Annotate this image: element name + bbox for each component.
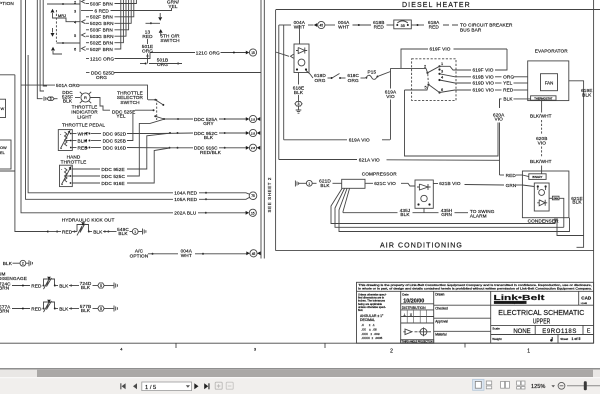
throttle indicator ground cap: [41, 97, 46, 101]
svg-text:BLK: BLK: [81, 285, 91, 290]
svg-text:619C VIO: 619C VIO: [473, 88, 495, 93]
svg-text:619F VIO: 619F VIO: [430, 47, 451, 52]
svg-text:.XX ± .06: .XX ± .06: [361, 327, 377, 331]
sheet bottom border: [0, 342, 594, 344]
svg-text:NONE: NONE: [513, 329, 530, 335]
wire to hydraulic kick out: [15, 75, 47, 232]
svg-text:BINARY: BINARY: [532, 175, 542, 179]
connector J1 body: [79, 0, 81, 52]
wire 503F BRN row5: [86, 29, 89, 31]
svg-text:1 / 5: 1 / 5: [145, 385, 156, 391]
ground connector circle 5 B: [98, 306, 104, 311]
hexagon connector 3: [47, 97, 54, 100]
svg-text:WHT: WHT: [181, 253, 192, 258]
svg-text:3: 3: [50, 97, 52, 101]
wire 619A VIO horizontal: [284, 139, 347, 141]
svg-text:RED: RED: [142, 34, 153, 39]
svg-text:Drawn: Drawn: [435, 293, 444, 297]
sheet right border: [593, 0, 595, 343]
svg-text:THERMOSTAT: THERMOSTAT: [534, 96, 552, 100]
svg-text:BLK: BLK: [63, 99, 73, 104]
hand throttle wire DDC 525C: [72, 175, 100, 177]
wire 619B VIO row: [440, 74, 472, 77]
binary wires into condenser: [522, 175, 528, 177]
svg-text:Material: Material: [435, 333, 447, 337]
svg-text:RED: RED: [31, 283, 42, 288]
continuous layout icon: [486, 381, 491, 389]
tolerance column divider: [400, 291, 402, 343]
svg-text:GRN: GRN: [441, 212, 452, 217]
wire 501E ORG: [147, 39, 149, 44]
svg-text:BLK: BLK: [118, 231, 128, 236]
svg-text:6: 6: [74, 46, 76, 51]
zone tick C: [464, 343, 466, 347]
condenser outer box: [522, 171, 569, 218]
wire 501A ORG: [21, 84, 55, 86]
wire 619A branch down: [283, 25, 285, 140]
single page layout icon (selected): [473, 379, 484, 390]
svg-text:FAN: FAN: [554, 197, 559, 200]
ground symbol kick out: [143, 229, 146, 235]
selector pin5 drop wire: [405, 90, 499, 156]
svg-text:2.8: 2.8: [251, 131, 256, 135]
throttle indicator light R: [81, 93, 90, 102]
svg-text:Link•Belt: Link•Belt: [494, 293, 546, 302]
svg-text:CONDENSER: CONDENSER: [528, 218, 560, 223]
svg-text:502F BRN: 502F BRN: [90, 47, 113, 52]
svg-text:202A BLU: 202A BLU: [174, 211, 197, 216]
svg-text:104A RED: 104A RED: [174, 191, 197, 196]
svg-text:DDC 916E: DDC 916E: [101, 181, 124, 186]
svg-text:503F BRN: 503F BRN: [90, 28, 113, 33]
wire riser G: [37, 0, 40, 99]
ac section left border: [275, 10, 277, 251]
svg-text:1: 1: [441, 61, 443, 66]
see sheet 2 band line B: [263, 0, 265, 259]
left connector box YEL: [0, 140, 11, 169]
condenser fan box: [552, 196, 559, 200]
svg-text:BRN: BRN: [0, 309, 9, 314]
svg-text:.X ± .1: .X ± .1: [361, 323, 375, 327]
wire riser I: [43, 0, 47, 86]
svg-text:Weight: Weight: [492, 337, 501, 341]
svg-text:SWITCH: SWITCH: [120, 100, 139, 105]
wire 104A RED riser: [28, 55, 173, 193]
wire 619A VIO vertical: [378, 72, 391, 77]
wire 619F VIO row: [440, 66, 472, 70]
svg-text:VIO: VIO: [386, 94, 395, 99]
svg-text:.XXX ± .003: .XXX ± .003: [361, 332, 380, 336]
drum disengage switch: [44, 279, 55, 286]
svg-text:6 RED: 6 RED: [95, 8, 110, 13]
throttle pedal potentiometer: [58, 130, 72, 151]
svg-text:GRN: GRN: [506, 183, 517, 188]
svg-text:BLK: BLK: [400, 212, 410, 217]
hexagon ground 3 heater: [295, 102, 302, 106]
svg-text:in whole or in part, of design: in whole or in part, of design and detai…: [358, 287, 592, 291]
wire 503G BRN row6: [86, 35, 89, 37]
circuit breaker 35: [394, 20, 412, 29]
distribution grid verticals: [407, 310, 427, 323]
svg-text:BUS BAR: BUS BAR: [460, 28, 482, 33]
svg-text:THROTTLE PEDAL: THROTTLE PEDAL: [62, 122, 105, 127]
third angle projection symbol: [403, 329, 412, 335]
arrow into sheet 15: [246, 51, 250, 55]
svg-text:CAD: CAD: [581, 295, 592, 300]
wire BLK thermostat row: [500, 99, 502, 108]
svg-text:AIR CONDITIONING: AIR CONDITIONING: [380, 242, 463, 249]
SECTION: left sheet verticals: [0, 0, 173, 232]
wire DDC 952C BLK row: [169, 132, 171, 134]
svg-text:EL: EL: [0, 150, 6, 155]
svg-text:RED: RED: [503, 88, 514, 93]
scrollbar track: [0, 370, 600, 378]
svg-text:619B VIO: 619B VIO: [473, 74, 495, 79]
title block border: [357, 282, 594, 343]
zone tick B: [324, 343, 326, 348]
svg-text:3: 3: [74, 8, 76, 13]
svg-text:RED: RED: [374, 25, 385, 30]
5th o/r switch contact arrows: [158, 17, 162, 21]
last page button: [204, 383, 209, 389]
svg-text:Checked: Checked: [435, 307, 448, 311]
hand throttle wire DDC 916E: [72, 182, 100, 184]
svg-text:1: 1: [308, 182, 310, 186]
svg-text:RED: RED: [506, 173, 517, 178]
heater relay K1: [299, 25, 301, 44]
next page button: [194, 383, 198, 389]
svg-text:2.8: 2.8: [251, 146, 256, 150]
tolerance note column: [358, 293, 386, 313]
svg-text:E: E: [587, 329, 591, 335]
svg-text:121C ORG: 121C ORG: [90, 56, 114, 61]
svg-text:This drawing is the property o: This drawing is the property of Link-Bel…: [358, 283, 592, 287]
svg-text:DECIMAL: DECIMAL: [360, 318, 375, 322]
viewer separator line: [0, 368, 600, 370]
evaporator box: [528, 61, 569, 101]
svg-text:SWITCH: SWITCH: [160, 38, 179, 43]
svg-text:4: 4: [120, 347, 123, 352]
svg-text:W: W: [1, 106, 5, 111]
svg-text:WHT: WHT: [338, 25, 349, 30]
zone tick A: [175, 343, 177, 348]
svg-text:ORG: ORG: [503, 74, 514, 79]
svg-text:DDC 916D: DDC 916D: [103, 145, 127, 150]
svg-text:BLK: BLK: [320, 183, 330, 188]
wire lamp to selector: [90, 98, 110, 111]
svg-text:DIESEL HEATER: DIESEL HEATER: [402, 2, 471, 9]
svg-text:BLK: BLK: [3, 261, 13, 266]
svg-text:1: 1: [134, 230, 136, 234]
approvals column divider: [433, 291, 435, 343]
left connector box W: [0, 99, 6, 117]
heater switch: [331, 77, 333, 79]
svg-text:ORG: ORG: [314, 78, 325, 83]
svg-text:621C VIO: 621C VIO: [374, 181, 396, 186]
MRJ arrow up A: [51, 9, 55, 13]
wire RED condenser: [500, 174, 505, 176]
svg-text:4: 4: [441, 75, 444, 80]
svg-text:YEL: YEL: [168, 4, 177, 9]
wire 121C ORG left: [86, 58, 89, 60]
wire 435J BLK: [423, 208, 425, 212]
prev page button: [133, 383, 137, 389]
ac relay K2: [415, 180, 433, 208]
svg-text:6: 6: [441, 87, 443, 92]
ground connector circle 2: [20, 260, 26, 266]
pedal wire WHT: [72, 133, 76, 135]
svg-text:VIO: VIO: [494, 117, 503, 122]
selector connector dashed box: [412, 59, 456, 101]
wire 004A down branch: [278, 25, 280, 160]
wire 502E BRN row7: [86, 42, 89, 44]
wire 004A WHT trunk: [279, 24, 291, 26]
wire 618E BLK: [298, 73, 300, 85]
svg-text:ELECTRICAL SCHEMATIC: ELECTRICAL SCHEMATIC: [498, 310, 584, 317]
pedal wire RED: [72, 147, 76, 149]
selector blades: [428, 66, 440, 73]
svg-text:503F BRN: 503F BRN: [90, 1, 113, 6]
svg-text:502G BRN: 502G BRN: [90, 21, 114, 26]
relay K1 coil input wire: [276, 52, 289, 56]
svg-text:1 of 5: 1 of 5: [572, 337, 581, 341]
ground connector circle 1: [132, 229, 138, 235]
svg-text:R: R: [84, 95, 87, 100]
condenser inner motor box: [534, 183, 549, 211]
svg-text:35: 35: [401, 24, 405, 28]
svg-text:LIGHT: LIGHT: [77, 115, 91, 120]
svg-text:Sheet: Sheet: [560, 337, 568, 341]
svg-text:FAN: FAN: [545, 80, 554, 85]
svg-text:YEL: YEL: [503, 81, 512, 86]
sheet connector circle 45 heater: [318, 21, 325, 28]
sheet connector circle 2.8 A: [249, 115, 256, 122]
svg-text:DDC 525C: DDC 525C: [101, 174, 125, 179]
ac section bottom border: [276, 250, 594, 252]
see sheet 2 band line A: [260, 0, 262, 259]
svg-text:BLK: BLK: [582, 92, 592, 97]
MRJ node dot B: [62, 42, 64, 44]
svg-text:121C ORG: 121C ORG: [196, 50, 220, 55]
svg-text:2: 2: [390, 349, 393, 355]
svg-text:2: 2: [424, 64, 426, 69]
svg-text:THROTTLE: THROTTLE: [61, 159, 87, 164]
svg-text:125%: 125%: [531, 384, 545, 390]
sheet connector circle 15 B: [249, 209, 256, 216]
wire DDC 916C RED/BLK row: [169, 147, 171, 149]
MRJ node dot A: [62, 3, 64, 5]
zoom out button: [558, 382, 565, 389]
MRJ arrow down B: [51, 33, 55, 37]
wire 502F BRN row3: [86, 16, 89, 18]
svg-text:RED/BLK: RED/BLK: [200, 150, 222, 155]
svg-text:502E BRN: 502E BRN: [90, 41, 113, 46]
svg-text:ORG: ORG: [96, 75, 107, 80]
svg-text:BLK: BLK: [294, 90, 304, 95]
svg-text:RED: RED: [31, 306, 42, 311]
MRJ arrow up C: [51, 47, 55, 51]
svg-text:5: 5: [74, 33, 76, 38]
svg-text:619A VIO: 619A VIO: [349, 138, 370, 143]
logo cell divider: [490, 291, 492, 343]
scrollbar thumb: [37, 370, 593, 377]
sheet connector circle 75: [249, 192, 257, 200]
svg-text:BLK/WHT: BLK/WHT: [530, 114, 552, 119]
svg-text:45: 45: [252, 252, 256, 256]
svg-text:621A VIO: 621A VIO: [359, 157, 380, 162]
5th o/r wires: [159, 13, 161, 17]
page number box: [142, 382, 192, 391]
compressor fanout wires: [331, 189, 555, 224]
third angle projection label: [401, 340, 434, 344]
svg-text:BLK: BLK: [503, 97, 513, 102]
svg-text:YEL: YEL: [116, 114, 125, 119]
wire 502G BRN row4: [86, 22, 89, 24]
wire 620A VIO: [499, 99, 501, 108]
svg-text:3: 3: [254, 347, 257, 352]
wire 105A RED riser: [26, 0, 174, 199]
svg-text:2: 2: [22, 262, 24, 266]
pedal wire BLK: [72, 140, 76, 142]
left cable box: [0, 75, 15, 171]
svg-text:15: 15: [251, 211, 255, 215]
wire 621A VIO: [279, 159, 357, 161]
ground connector circle 5 A: [98, 283, 104, 288]
hand throttle wire DDC 952E: [72, 168, 100, 170]
wire riser H: [40, 0, 44, 91]
svg-text:DDC 952D: DDC 952D: [103, 131, 127, 136]
svg-text:DISENGAGE: DISENGAGE: [0, 276, 27, 281]
svg-text:I-1045: I-1045: [581, 303, 588, 305]
svg-text:RED: RED: [62, 229, 73, 234]
wire 619D VIO row: [440, 80, 472, 83]
svg-text:5: 5: [100, 307, 102, 311]
wire 621C VIO: [365, 182, 373, 184]
compressor box: [342, 179, 365, 188]
svg-text:P15: P15: [368, 70, 377, 75]
svg-text:CONSTRUCTION EQUIPMENT: CONSTRUCTION EQUIPMENT: [495, 302, 525, 304]
compressor ground: [295, 181, 298, 187]
svg-text:PTION: PTION: [0, 1, 14, 6]
svg-text:ORG: ORG: [348, 78, 359, 83]
node dot 501E: [150, 22, 152, 24]
svg-text:UPPER: UPPER: [533, 318, 551, 325]
sheet connector circle 15: [249, 49, 256, 56]
svg-text:.XXXX ± .0005: .XXXX ± .0005: [361, 336, 383, 340]
hydraulic kick out switch: [47, 231, 49, 233]
svg-text:501A ORG: 501A ORG: [56, 83, 80, 88]
sheet connector circle 2.8 C: [249, 144, 256, 151]
svg-text:COMPRESSOR: COMPRESSOR: [362, 172, 398, 177]
wire 501B ORG: [140, 63, 145, 65]
svg-text:VIO: VIO: [538, 140, 547, 145]
wire 6 RED row2: [86, 10, 93, 12]
svg-text:MRJ: MRJ: [58, 13, 66, 18]
svg-text:OPTION: OPTION: [130, 253, 149, 258]
svg-text:BRN: BRN: [0, 286, 9, 291]
svg-text:ORG: ORG: [157, 62, 168, 67]
binary switch box: [529, 174, 546, 180]
wire 503F BRN row1: [86, 3, 89, 5]
two page layout icon: [501, 381, 510, 388]
wire 619E BLK: [569, 81, 584, 248]
wire 502F BRN row8: [86, 48, 89, 50]
svg-text:-: -: [60, 132, 62, 136]
svg-text:5: 5: [100, 284, 102, 288]
svg-text:1: 1: [527, 349, 530, 355]
svg-text:Date: Date: [402, 293, 409, 297]
svg-text:ORG: ORG: [142, 48, 153, 53]
svg-text:BLK: BLK: [59, 283, 69, 288]
svg-text:SEE SHEET 2: SEE SHEET 2: [267, 177, 272, 213]
first page button: [120, 383, 125, 389]
selector switch contacts: [154, 99, 156, 101]
svg-text:503G BRN: 503G BRN: [90, 34, 114, 39]
two page scrolling icon: [517, 381, 525, 389]
winch switch: [44, 302, 55, 309]
svg-text:DISTRIBUTION: DISTRIBUTION: [402, 306, 426, 310]
wire BLK/WHT upper dashed: [541, 100, 543, 112]
svg-text:45: 45: [320, 24, 324, 28]
svg-text:RED: RED: [429, 25, 440, 30]
svg-text:ALARM: ALARM: [470, 214, 487, 219]
svg-text:619D VIO: 619D VIO: [473, 81, 495, 86]
hand throttle potentiometer: [60, 165, 73, 186]
toolbar background: [0, 377, 600, 394]
fan box: [541, 74, 558, 91]
svg-text:3: 3: [298, 102, 300, 106]
svg-text:75: 75: [251, 194, 255, 198]
svg-text:619F VIO: 619F VIO: [473, 68, 494, 73]
selector right pins: [438, 65, 440, 67]
wire 202A BLU riser: [21, 0, 173, 213]
wire 621E BLK to fan: [549, 197, 552, 199]
svg-text:GRY: GRY: [203, 121, 214, 126]
svg-text:621B VIO: 621B VIO: [439, 181, 461, 186]
MRJ dashed link: [55, 10, 57, 42]
svg-text:BLK: BLK: [204, 135, 214, 140]
svg-text:502F BRN: 502F BRN: [90, 15, 113, 20]
svg-text:Approval: Approval: [435, 320, 448, 324]
svg-text:DDC 952E: DDC 952E: [101, 167, 124, 172]
MRJ wires: [47, 3, 80, 5]
svg-text:EVAPORATOR: EVAPORATOR: [535, 49, 568, 54]
svg-text:2.8: 2.8: [251, 117, 256, 121]
wire 618D ORG: [306, 71, 313, 79]
zoom slider: [567, 385, 600, 387]
heater title rule: [276, 9, 600, 11]
wire 621B VIO: [433, 183, 438, 185]
svg-text:BLK: BLK: [572, 200, 582, 205]
svg-text:3: 3: [441, 68, 443, 73]
svg-text:DDC 525B: DDC 525B: [103, 138, 126, 143]
svg-text:5: 5: [425, 85, 427, 90]
sheet connector circle 2.8 B: [249, 129, 256, 136]
svg-text:E9RO118S: E9RO118S: [542, 329, 577, 335]
svg-text:-: -: [61, 168, 63, 172]
svg-text:fied.: fied.: [358, 308, 363, 312]
CAD cell: [578, 291, 580, 305]
ground connector circle 1 compressor: [306, 180, 312, 186]
svg-text:15: 15: [251, 51, 255, 55]
svg-text:105A RED: 105A RED: [174, 197, 197, 202]
sheet connector circle 45: [250, 250, 257, 257]
wire 004A WHT to sheet 45: [152, 253, 154, 255]
thermostat box: [531, 96, 556, 100]
svg-text:BLK: BLK: [81, 308, 91, 313]
prev view icon: [215, 382, 222, 389]
next view icon: [226, 382, 233, 389]
